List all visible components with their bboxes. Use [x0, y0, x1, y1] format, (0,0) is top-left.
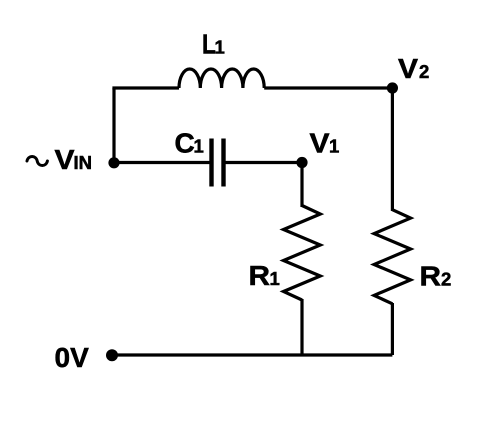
label R2	[420, 261, 452, 292]
node Vin	[108, 157, 119, 168]
svg-text:R: R	[420, 261, 442, 292]
inductor L1 coil	[179, 69, 264, 88]
label L1	[202, 29, 225, 60]
wire bottom rail	[112, 353, 392, 356]
svg-text:0V: 0V	[55, 342, 90, 373]
wire R2 down to bottom rail	[391, 303, 394, 355]
label V1	[310, 128, 340, 159]
node 0V	[106, 349, 118, 361]
svg-text:1: 1	[270, 268, 280, 289]
node V1	[296, 157, 307, 168]
label R1	[249, 260, 280, 291]
capacitor C1 plates	[212, 139, 224, 187]
svg-text:1: 1	[215, 37, 225, 58]
svg-text:V: V	[55, 144, 75, 175]
wire C1 to V1 node	[224, 161, 303, 164]
wire Vin node to C1	[112, 161, 211, 164]
svg-text:R: R	[249, 260, 271, 291]
label C1	[175, 128, 204, 159]
AC source tilde symbol	[27, 157, 47, 166]
wire V1 down to R1	[300, 163, 303, 208]
label Vin	[55, 144, 93, 175]
node V2	[387, 82, 398, 93]
svg-text:V: V	[310, 128, 330, 159]
svg-text:C: C	[175, 128, 195, 159]
resistor R1	[284, 206, 321, 301]
svg-text:V: V	[398, 53, 418, 84]
resistor R2	[374, 210, 411, 304]
wire top rail right segment	[264, 86, 392, 89]
wire R1 down to bottom rail	[300, 299, 303, 355]
wire top rail left segment	[112, 86, 179, 89]
svg-text:IN: IN	[74, 152, 93, 173]
svg-text:1: 1	[194, 136, 204, 157]
svg-text:1: 1	[329, 136, 339, 157]
svg-text:2: 2	[441, 269, 451, 290]
wire left vertical (Vin node up to top rail)	[112, 88, 115, 164]
svg-text:2: 2	[419, 61, 429, 82]
label V2	[398, 53, 429, 84]
wire V2 down to R2	[391, 88, 394, 211]
